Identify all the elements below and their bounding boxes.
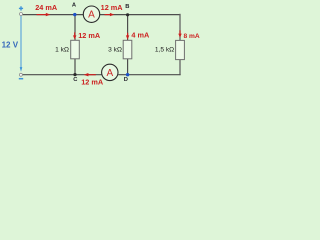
- svg-text:12 mA: 12 mA: [81, 77, 104, 86]
- current arrow 12 mA (branch A, down): [73, 32, 76, 39]
- wire branch B lower stub: [127, 59, 129, 75]
- wire top right segment: [100, 14, 181, 16]
- svg-text:1,5 kΩ: 1,5 kΩ: [155, 47, 174, 54]
- svg-text:A: A: [106, 68, 113, 79]
- svg-text:B: B: [125, 4, 129, 10]
- source terminal bottom: [19, 73, 22, 76]
- resistor R2 3 kOhm: [123, 40, 132, 59]
- svg-text:D: D: [124, 77, 128, 83]
- svg-text:3 kΩ: 3 kΩ: [108, 47, 122, 54]
- wire bottom left segment: [23, 74, 102, 76]
- svg-text:12 mA: 12 mA: [78, 31, 101, 40]
- voltage source V1 arrow: [20, 16, 23, 72]
- svg-text:A: A: [88, 10, 95, 21]
- current arrow 8 mA (right branch, down): [178, 30, 181, 37]
- wire branch B upper stub: [127, 15, 129, 41]
- svg-text:12 mA: 12 mA: [101, 3, 124, 12]
- svg-text:24 mA: 24 mA: [35, 3, 58, 12]
- svg-text:12 V: 12 V: [2, 41, 19, 50]
- wire top left segment: [23, 14, 84, 16]
- current arrow 12 mA (bottom, pointing left): [84, 73, 96, 76]
- svg-text:8 mA: 8 mA: [184, 33, 200, 40]
- current arrow 4 mA (branch B, down): [126, 33, 129, 40]
- node B: [126, 13, 129, 16]
- resistor R1 1 kOhm: [71, 40, 80, 59]
- svg-text:1 kΩ: 1 kΩ: [55, 47, 69, 54]
- wire right side upper: [179, 14, 181, 41]
- minus polarity mark: [19, 78, 23, 80]
- resistor R3 1,5 kOhm: [176, 40, 185, 59]
- node D: [126, 73, 129, 76]
- background: [0, 0, 200, 90]
- node C: [73, 73, 76, 76]
- current arrow 12 mA (top): [105, 13, 115, 16]
- svg-text:4 mA: 4 mA: [131, 31, 150, 40]
- node A: [73, 13, 76, 16]
- wire branch A lower stub: [74, 59, 76, 75]
- wire bottom right segment: [118, 74, 180, 76]
- plus polarity mark: [19, 6, 23, 10]
- ammeter A1 (top): [83, 6, 99, 22]
- wire branch A upper stub: [74, 15, 76, 41]
- wire right side lower: [179, 60, 181, 76]
- ammeter A2 (bottom): [102, 64, 118, 80]
- source terminal top: [20, 13, 23, 16]
- current arrow 24 mA: [37, 13, 51, 16]
